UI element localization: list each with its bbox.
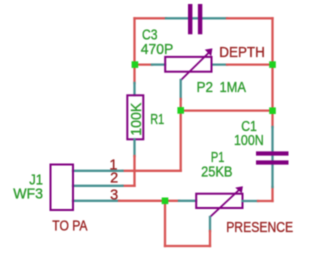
potentiometer P2 arrow [181, 53, 209, 81]
wire middle row horizontal [181, 109, 273, 111]
pin R1 top lead [133, 83, 135, 95]
svg-text:PRESENCE: PRESENCE [226, 220, 293, 236]
wire DEPTH row red left [135, 63, 153, 65]
svg-text:1MA: 1MA [220, 80, 247, 96]
svg-text:100K: 100K [129, 102, 145, 135]
pin J1-3 lead [73, 200, 119, 202]
capacitor C1 [256, 154, 289, 163]
capacitor C3 [190, 4, 200, 34]
pin P1 wiper lead [209, 217, 211, 231]
wire pin1 red segment [123, 170, 181, 172]
potentiometer P1 body [196, 194, 242, 208]
svg-text:TO PA: TO PA [52, 218, 87, 234]
svg-text:470P: 470P [141, 42, 174, 58]
wire pin3 red to junction [119, 200, 165, 202]
wire top-left horizontal [135, 17, 167, 19]
svg-text:WF3: WF3 [13, 187, 43, 203]
junction node C (rail right / middle row / C1) [269, 107, 276, 114]
svg-text:3: 3 [110, 188, 118, 204]
pin P2 left lead [152, 63, 165, 65]
wire left rail vertical [133, 18, 135, 64]
wire bottom loop horizontal [165, 245, 210, 247]
wire R1 bottom to pin2 row [133, 156, 135, 186]
pin C1 leads vertical [271, 127, 273, 187]
svg-text:P1: P1 [211, 150, 225, 166]
wire pin2 red stub [123, 185, 135, 187]
wire top-right horizontal [227, 17, 273, 19]
potentiometer P1 arrow [210, 190, 239, 217]
junction node E (pin3 / P1 left / bottom loop) [162, 198, 169, 205]
wire R1 top red [133, 65, 135, 83]
pin R1 bottom lead [133, 139, 135, 156]
pin J1-1 lead [73, 170, 123, 172]
pin P1 left lead [179, 200, 196, 202]
svg-text:2: 2 [110, 171, 118, 187]
wire right rail vertical [271, 18, 273, 127]
wire C1 bottom red [271, 187, 273, 201]
wire bottom loop vertical to junction [164, 201, 166, 246]
pin P1 right lead [243, 200, 259, 202]
wire P1 wiper down [209, 231, 211, 246]
wire DEPTH row red right [227, 63, 273, 65]
pin P2 right lead [212, 63, 227, 65]
junction node B (rail right / P2 right) [269, 61, 276, 68]
svg-text:25KB: 25KB [201, 165, 232, 181]
svg-text:100N: 100N [234, 133, 264, 149]
svg-text:P2: P2 [197, 80, 214, 96]
svg-text:R1: R1 [150, 112, 164, 128]
wire C3 pin leads horizontal [166, 17, 227, 19]
resistor R1 body [127, 95, 143, 139]
wire wiper junction down to pin1 row [180, 111, 182, 171]
connector J1 body [51, 165, 74, 211]
pin J1-2 lead [73, 185, 123, 187]
wire P1 right to C1 [258, 200, 273, 202]
pin P2 wiper lead [180, 80, 182, 99]
potentiometer P2 body [165, 57, 211, 72]
wire P2 wiper to junction [180, 99, 182, 111]
junction node A (rail left / P2 left / R1) [132, 61, 139, 68]
svg-text:DEPTH: DEPTH [219, 45, 264, 61]
junction node D (P2 wiper / middle row / pin1) [177, 107, 184, 114]
wire pin3 junction to P1 [165, 200, 179, 202]
